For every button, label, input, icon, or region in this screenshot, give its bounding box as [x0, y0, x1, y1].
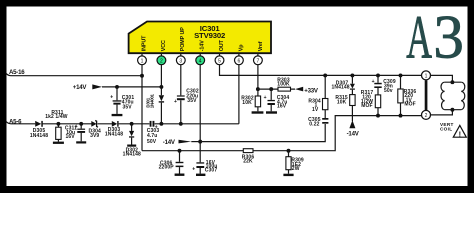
junction C306	[178, 149, 182, 153]
svg-text:COIL: COIL	[440, 127, 452, 132]
junction D302 top	[130, 122, 134, 126]
svg-text:VCC: VCC	[161, 40, 167, 51]
svg-text:7: 7	[257, 58, 260, 64]
pin 2 circle (green)	[157, 53, 166, 64]
pin 3 circle	[176, 53, 185, 64]
pin 6 circle	[235, 53, 244, 64]
junction coil top	[450, 80, 454, 84]
capacitor C303	[147, 121, 160, 145]
capacitor C302	[174, 89, 199, 106]
svg-text:STV9302: STV9302	[194, 31, 225, 40]
svg-text:+: +	[192, 167, 195, 173]
svg-text:+33V: +33V	[304, 87, 319, 94]
junction pin4 -14V	[198, 140, 202, 144]
resistor R304	[308, 75, 328, 118]
svg-text:1N4001: 1N4001	[150, 93, 155, 108]
connector bar	[425, 80, 428, 110]
wire pin3 lead	[180, 65, 182, 124]
ground R311	[53, 142, 64, 144]
wire pin6 lead	[238, 65, 240, 124]
wire pin4 lead	[199, 65, 201, 163]
wire pin7 lead	[257, 65, 259, 89]
wire A5-16 to pin1	[6, 73, 142, 75]
svg-text:C307: C307	[205, 168, 218, 174]
svg-text:+14V: +14V	[73, 84, 88, 91]
svg-text:6: 6	[238, 58, 241, 64]
svg-text:35V: 35V	[187, 98, 197, 104]
svg-text:16V: 16V	[66, 134, 76, 140]
vertical deflection coil L1	[441, 82, 465, 110]
svg-text:16V: 16V	[277, 104, 287, 110]
svg-text:1N4148: 1N4148	[30, 133, 48, 139]
svg-text:!: !	[459, 129, 461, 138]
diode D303	[105, 121, 123, 138]
svg-text:2W: 2W	[292, 166, 300, 172]
svg-text:3: 3	[179, 58, 182, 64]
svg-text:2: 2	[160, 58, 163, 64]
svg-text:Vp: Vp	[239, 44, 245, 51]
wire connector1 to coil	[431, 75, 453, 82]
svg-text:5: 5	[218, 58, 221, 64]
svg-text:OUT: OUT	[219, 39, 225, 51]
junction D307 top	[350, 73, 354, 77]
diode D307	[331, 75, 354, 94]
junction D301 bottom	[159, 122, 163, 126]
svg-text:-14V: -14V	[347, 131, 360, 138]
+14V arrow	[92, 84, 102, 89]
ground C301	[112, 114, 123, 116]
resistor R315	[335, 95, 355, 122]
label VERT COIL	[440, 122, 454, 132]
svg-text:2: 2	[425, 113, 428, 119]
node -14V arrow (pin4)	[163, 139, 200, 146]
capacitor C306	[159, 151, 184, 174]
border frame	[0, 0, 474, 7]
svg-text:1k2 1/4W: 1k2 1/4W	[45, 114, 68, 120]
junction pin7/R302	[256, 87, 260, 91]
svg-text:1V: 1V	[312, 107, 319, 113]
capacitor C304	[264, 89, 290, 111]
diode D305	[30, 121, 48, 139]
diode D301	[146, 93, 165, 108]
junction R311	[56, 122, 60, 126]
svg-text:4.7u: 4.7u	[147, 133, 158, 139]
svg-text:10K: 10K	[242, 100, 252, 106]
capacitor C309	[372, 75, 396, 95]
svg-text:0.22: 0.22	[309, 121, 319, 127]
junction +14V pin2	[159, 85, 163, 89]
svg-text:1N4148: 1N4148	[123, 152, 141, 158]
ground R302	[252, 111, 264, 113]
svg-text:1N4148: 1N4148	[105, 132, 123, 138]
junction R317 bottom	[376, 114, 380, 118]
capacitor C307	[192, 160, 217, 174]
wire +14V rail	[102, 86, 161, 88]
ground C307	[196, 174, 205, 176]
node -14V up arrow	[347, 120, 360, 137]
pin 7 circle	[254, 53, 263, 64]
svg-text:POMP UP: POMP UP	[180, 27, 186, 52]
ground C304	[266, 111, 277, 113]
svg-text:+: +	[264, 95, 267, 101]
junction pin3 bottom	[179, 122, 183, 126]
junction C311	[79, 122, 83, 126]
resistor R311	[45, 110, 68, 142]
resistor R302	[241, 89, 260, 111]
junction R309	[287, 149, 291, 153]
junction C309 top	[376, 73, 380, 77]
wire pin7 row	[258, 88, 295, 90]
junction R336 top	[399, 73, 403, 77]
svg-text:-14V: -14V	[163, 139, 176, 146]
svg-text:1N4148: 1N4148	[331, 84, 349, 90]
op-amp IC U301 body	[129, 22, 271, 54]
junction C301 top	[115, 85, 119, 89]
svg-text:4: 4	[199, 58, 202, 64]
svg-text:50v: 50v	[384, 88, 393, 94]
svg-text:3: 3	[433, 5, 464, 72]
wire A5-6 row	[6, 121, 239, 123]
pin 4 circle (green)	[196, 53, 205, 64]
svg-text:+: +	[110, 94, 113, 100]
wire pin5 OUT to connector	[220, 65, 422, 76]
diode D302	[123, 124, 141, 158]
wire connector2 to coil	[431, 110, 453, 115]
svg-text:MOF: MOF	[404, 102, 415, 108]
wire pin2 lead	[160, 65, 162, 124]
resistor R303	[277, 77, 290, 91]
capacitor C305	[308, 117, 328, 127]
pin 5 circle	[215, 53, 224, 64]
svg-text:35V: 35V	[123, 104, 133, 110]
ground C306	[175, 174, 185, 176]
ground R309	[283, 174, 293, 176]
zener diode D304	[88, 121, 101, 140]
svg-text:INPUT: INPUT	[141, 35, 147, 51]
svg-text:A: A	[406, 3, 432, 71]
svg-text:Vref: Vref	[258, 41, 264, 51]
svg-text:3V9: 3V9	[90, 133, 99, 139]
A3 sheet logo	[406, 3, 464, 72]
svg-text:A5-16: A5-16	[9, 69, 25, 76]
resistor R306	[242, 149, 255, 165]
ground D302	[127, 145, 136, 147]
junction R304 top	[323, 73, 327, 77]
connector pin 1	[422, 71, 431, 80]
svg-text:22K: 22K	[243, 159, 253, 165]
resistor R336	[398, 75, 417, 115]
junction R336 bottom	[399, 114, 403, 118]
node +33V arrow	[295, 87, 319, 95]
pin 1 circle	[138, 53, 147, 64]
junction coil bottom	[450, 108, 454, 112]
connector pin 2	[422, 110, 431, 119]
svg-text:-14V: -14V	[199, 40, 205, 51]
junction C304	[269, 87, 273, 91]
svg-text:1: 1	[141, 58, 144, 64]
warning triangle	[453, 125, 466, 138]
svg-text:50V: 50V	[147, 139, 157, 145]
resistor R317	[361, 90, 381, 116]
resistor R309	[286, 151, 304, 174]
svg-text:2200P: 2200P	[159, 165, 175, 171]
svg-text:1: 1	[425, 74, 428, 80]
junction pin1/A5-16	[140, 74, 144, 78]
capacitor C311	[65, 124, 85, 142]
wire pin1 lead down	[141, 65, 143, 151]
svg-text:MOF: MOF	[361, 103, 372, 109]
wire feedback row	[142, 116, 422, 151]
capacitor C301	[110, 87, 134, 114]
wire -14V rail to C305	[200, 124, 325, 142]
svg-text:+: +	[372, 79, 375, 85]
svg-text:10K: 10K	[337, 99, 347, 105]
ground C311	[76, 141, 86, 143]
svg-text:+: +	[174, 99, 177, 105]
